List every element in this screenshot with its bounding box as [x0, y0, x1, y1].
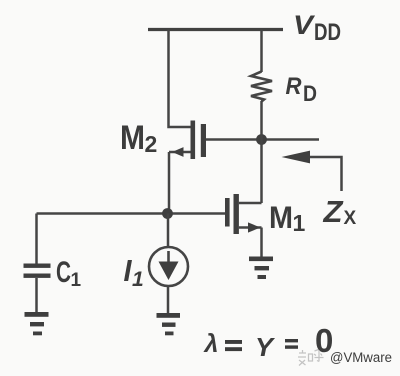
- middle wire (gate of M1): [37, 212, 226, 215]
- current source I1: [149, 214, 188, 315]
- watermark: [298, 350, 324, 366]
- svg-text:@VMware: @VMware: [330, 350, 392, 365]
- wire VDD to RD: [260, 30, 263, 73]
- wire M2 source down to middle node: [168, 152, 171, 214]
- transistor M2: [169, 121, 206, 160]
- svg-text:V: V: [293, 10, 315, 40]
- formula lambda = gamma = 0: [203, 322, 334, 362]
- svg-text:DD: DD: [314, 19, 341, 46]
- wire RD to node X to M1 drain: [260, 101, 263, 203]
- VDD rail: [148, 28, 283, 31]
- wire M2 gate to node X: [206, 138, 319, 141]
- svg-text:1: 1: [132, 268, 144, 291]
- svg-text:C: C: [56, 256, 71, 289]
- wire VDD to M2 source: [169, 30, 192, 128]
- svg-text:X: X: [344, 208, 357, 229]
- svg-text:Z: Z: [322, 194, 343, 229]
- svg-text:Y: Y: [255, 332, 276, 362]
- ground under C1: [25, 312, 49, 335]
- svg-text:2: 2: [145, 131, 158, 157]
- svg-text:1: 1: [293, 210, 306, 236]
- svg-text:M: M: [120, 119, 145, 157]
- resistor RD: [251, 72, 272, 102]
- svg-text:λ: λ: [203, 330, 219, 358]
- capacitor C1: [24, 214, 51, 314]
- svg-text:D: D: [303, 81, 317, 106]
- svg-text:R: R: [286, 73, 302, 100]
- svg-text:M: M: [269, 199, 293, 235]
- node A junction dot: [162, 208, 173, 219]
- ground under I1: [157, 313, 181, 335]
- ground under M1: [249, 257, 273, 280]
- ZX arrow: [309, 157, 342, 191]
- svg-text:1: 1: [71, 270, 82, 291]
- node X junction dot: [256, 134, 267, 145]
- transistor M1: [225, 194, 262, 257]
